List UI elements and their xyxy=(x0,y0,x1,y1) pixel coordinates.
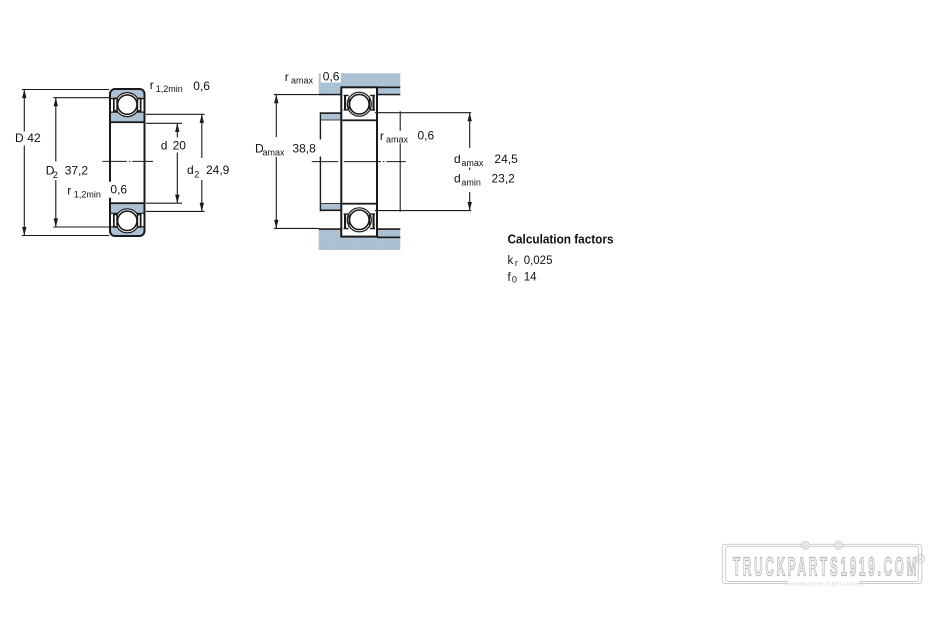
svg-text:1,2min: 1,2min xyxy=(156,84,183,94)
svg-text:f: f xyxy=(508,272,512,284)
svg-text:amin: amin xyxy=(461,178,481,188)
svg-text:r: r xyxy=(150,78,154,92)
svg-text:1,2min: 1,2min xyxy=(74,189,101,199)
svg-text:d: d xyxy=(454,152,461,166)
svg-text:d: d xyxy=(454,172,461,186)
svg-text:r: r xyxy=(515,258,518,268)
svg-text:R: R xyxy=(918,557,922,563)
svg-text:d: d xyxy=(161,138,168,152)
svg-text:0,025: 0,025 xyxy=(524,255,553,267)
svg-text:20: 20 xyxy=(173,138,187,152)
svg-text:amax: amax xyxy=(291,76,314,86)
svg-text:0: 0 xyxy=(512,274,517,284)
svg-text:r: r xyxy=(380,129,384,143)
svg-text:amax: amax xyxy=(386,135,409,145)
svg-text:37,2: 37,2 xyxy=(65,164,89,178)
svg-text:r: r xyxy=(67,184,71,198)
svg-text:ASSEMBLED BY FLEET FINDER: ASSEMBLED BY FLEET FINDER xyxy=(784,581,864,586)
svg-text:Calculation factors: Calculation factors xyxy=(508,231,614,246)
svg-text:0,6: 0,6 xyxy=(323,69,340,83)
svg-text:D: D xyxy=(15,131,24,145)
svg-text:42: 42 xyxy=(27,131,41,145)
svg-text:TRUCKPARTS1919.COM: TRUCKPARTS1919.COM xyxy=(733,553,919,581)
svg-text:d: d xyxy=(187,163,194,177)
svg-text:r: r xyxy=(285,70,289,84)
svg-text:0,6: 0,6 xyxy=(418,128,435,142)
svg-text:23,2: 23,2 xyxy=(492,172,516,186)
svg-text:38,8: 38,8 xyxy=(292,141,316,155)
svg-text:24,5: 24,5 xyxy=(494,152,518,166)
svg-text:2: 2 xyxy=(53,170,58,180)
svg-text:0,6: 0,6 xyxy=(110,183,127,197)
svg-text:0,6: 0,6 xyxy=(193,79,210,93)
svg-text:24,9: 24,9 xyxy=(206,163,230,177)
svg-text:amax: amax xyxy=(461,158,484,168)
svg-text:14: 14 xyxy=(524,271,537,283)
svg-text:k: k xyxy=(508,255,514,267)
svg-text:2: 2 xyxy=(194,169,199,179)
svg-text:amax: amax xyxy=(263,148,286,158)
